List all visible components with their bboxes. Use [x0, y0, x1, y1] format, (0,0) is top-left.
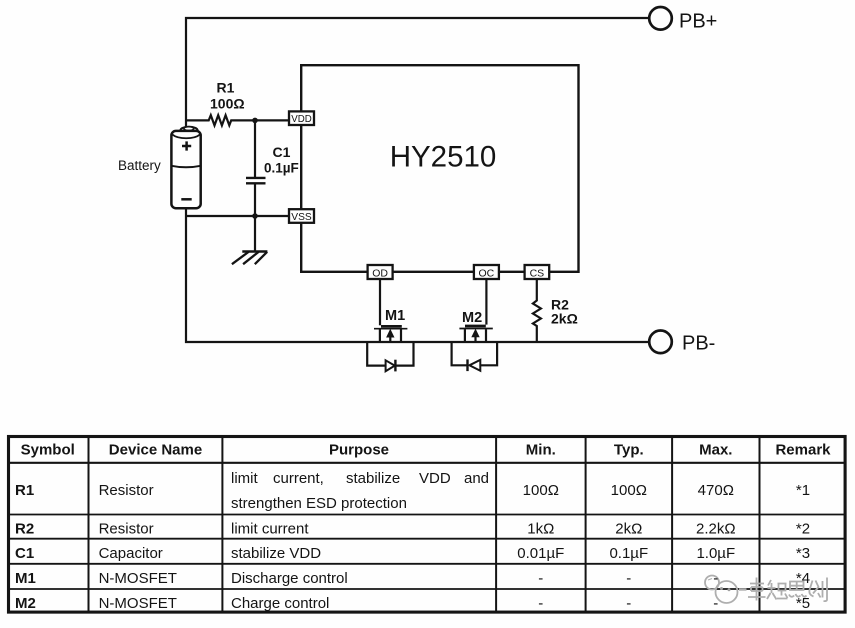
svg-text:Symbol: Symbol [21, 441, 75, 458]
svg-text:Charge control: Charge control [231, 595, 329, 612]
svg-text:Capacitor: Capacitor [99, 545, 163, 562]
svg-text:*3: *3 [796, 545, 810, 562]
svg-text:1kΩ: 1kΩ [527, 520, 554, 537]
svg-text:PB+: PB+ [679, 10, 717, 32]
svg-text:R2: R2 [15, 520, 34, 537]
svg-text:-: - [713, 570, 718, 587]
svg-text:1.0µF: 1.0µF [696, 545, 735, 562]
svg-text:VDD: VDD [419, 470, 451, 487]
svg-text:and: and [464, 470, 489, 487]
svg-text:-: - [626, 595, 631, 612]
svg-text:2kΩ: 2kΩ [615, 520, 642, 537]
svg-text:R1: R1 [217, 80, 235, 96]
svg-text:0.1µF: 0.1µF [264, 161, 299, 176]
svg-text:HY2510: HY2510 [390, 141, 497, 174]
svg-text:stabilize VDD: stabilize VDD [231, 545, 321, 562]
svg-text:*5: *5 [796, 595, 810, 612]
svg-text:Purpose: Purpose [329, 441, 389, 458]
svg-text:VSS: VSS [291, 211, 312, 223]
svg-text:0.1µF: 0.1µF [609, 545, 648, 562]
svg-text:2kΩ: 2kΩ [551, 311, 578, 327]
svg-text:100Ω: 100Ω [523, 482, 559, 499]
svg-text:limit: limit [231, 470, 258, 487]
svg-text:R1: R1 [15, 482, 34, 499]
svg-text:-: - [713, 595, 718, 612]
svg-text:-: - [538, 595, 543, 612]
svg-text:Battery: Battery [118, 158, 161, 173]
svg-text:Device Name: Device Name [109, 441, 202, 458]
svg-text:M2: M2 [15, 595, 36, 612]
svg-text:Min.: Min. [526, 441, 556, 458]
svg-text:Discharge control: Discharge control [231, 570, 348, 587]
svg-text:limit current: limit current [231, 520, 309, 537]
svg-text:-: - [538, 570, 543, 587]
svg-text:100Ω: 100Ω [210, 96, 245, 112]
svg-text:strengthen ESD protection: strengthen ESD protection [231, 495, 407, 512]
svg-text:Resistor: Resistor [99, 482, 154, 499]
svg-text:Typ.: Typ. [614, 441, 644, 458]
svg-text:CS: CS [530, 267, 545, 279]
svg-text:M1: M1 [15, 570, 36, 587]
svg-text:*1: *1 [796, 482, 810, 499]
svg-text:-: - [626, 570, 631, 587]
svg-text:470Ω: 470Ω [698, 482, 734, 499]
svg-text:N-MOSFET: N-MOSFET [99, 570, 177, 587]
svg-text:*4: *4 [796, 570, 810, 587]
svg-text:C1: C1 [273, 144, 291, 160]
svg-text:current,: current, [273, 470, 324, 487]
svg-text:PB-: PB- [682, 333, 715, 355]
svg-text:OD: OD [372, 267, 388, 279]
svg-text:OC: OC [479, 267, 495, 279]
svg-text:100Ω: 100Ω [611, 482, 647, 499]
svg-text:VDD: VDD [291, 113, 312, 125]
svg-text:N-MOSFET: N-MOSFET [99, 595, 177, 612]
svg-text:stabilize: stabilize [346, 470, 400, 487]
svg-text:Remark: Remark [775, 441, 831, 458]
svg-text:Max.: Max. [699, 441, 732, 458]
svg-text:*2: *2 [796, 520, 810, 537]
svg-text:0.01µF: 0.01µF [517, 545, 564, 562]
svg-text:C1: C1 [15, 545, 34, 562]
svg-text:2.2kΩ: 2.2kΩ [696, 520, 736, 537]
svg-text:M1: M1 [385, 308, 405, 324]
svg-text:M2: M2 [462, 310, 482, 326]
svg-text:Resistor: Resistor [99, 520, 154, 537]
